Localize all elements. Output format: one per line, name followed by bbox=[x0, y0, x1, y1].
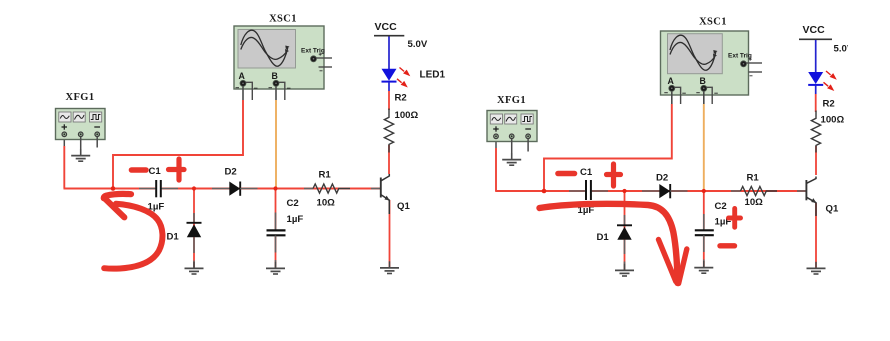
wire R2 to collector (right) bbox=[815, 146, 817, 175]
node C2 junction dot (right) bbox=[702, 189, 706, 193]
function generator XFG1 (right) bbox=[487, 111, 537, 142]
resistor R1 (right) bbox=[731, 173, 806, 209]
wire Q1 emitter to ground (right) bbox=[815, 203, 817, 268]
svg-text:D1: D1 bbox=[167, 232, 180, 243]
node A junction dot (right) bbox=[542, 189, 547, 194]
wire R2 to Q1 collector bbox=[388, 145, 390, 174]
svg-text:D2: D2 bbox=[656, 173, 668, 184]
svg-text:10Ω: 10Ω bbox=[745, 197, 764, 208]
XSC1 label bbox=[269, 14, 297, 25]
main horizontal wire (right) bbox=[495, 190, 806, 192]
ground XFG1 (right) bbox=[502, 153, 521, 165]
annotation red minus (C1 right) bbox=[558, 171, 575, 177]
svg-text:B: B bbox=[700, 76, 706, 86]
annotation red minus (C1 left) bbox=[132, 167, 147, 173]
annotation red curved arrow (left) bbox=[104, 194, 163, 269]
LED LED1 (right) bbox=[808, 40, 837, 112]
node D1 junction dot (right) bbox=[622, 189, 626, 193]
ground Q1 bbox=[380, 261, 399, 273]
ground D1 bbox=[185, 262, 204, 274]
diode D2 (right) bbox=[642, 173, 688, 199]
XFG1 common wire bbox=[80, 137, 82, 155]
svg-text:Ext Trig: Ext Trig bbox=[728, 53, 752, 60]
svg-text:R2: R2 bbox=[395, 93, 407, 104]
XSC1 label (right) bbox=[699, 17, 727, 28]
svg-text:R1: R1 bbox=[747, 173, 760, 184]
XFG1 minus stub (right) bbox=[527, 139, 529, 152]
ground Q1 (right) bbox=[807, 262, 826, 274]
resistor R2 (right) bbox=[811, 99, 844, 153]
ground C2 bbox=[266, 262, 285, 274]
svg-text:10Ω: 10Ω bbox=[317, 198, 336, 209]
wire XFG1 plus terminal to main wire (right) bbox=[495, 139, 497, 191]
svg-text:XSC1: XSC1 bbox=[269, 14, 297, 25]
svg-text:VCC: VCC bbox=[803, 24, 826, 36]
capacitor C2 bbox=[267, 198, 304, 268]
svg-text:C2: C2 bbox=[715, 201, 727, 212]
capacitor C1 bbox=[139, 166, 178, 213]
svg-text:XSC1: XSC1 bbox=[699, 17, 727, 28]
svg-text:C1: C1 bbox=[580, 167, 593, 178]
wire scope channel B down to node bbox=[275, 100, 277, 189]
svg-text:XFG1: XFG1 bbox=[497, 95, 526, 106]
svg-text:C1: C1 bbox=[149, 166, 162, 177]
svg-text:C2: C2 bbox=[287, 198, 299, 209]
ground C2 (right) bbox=[694, 261, 713, 273]
node A junction dot bbox=[111, 186, 116, 191]
annotation red plus (C1 left) bbox=[169, 159, 185, 180]
diode D2 bbox=[212, 167, 258, 196]
svg-text:100Ω: 100Ω bbox=[821, 115, 845, 126]
annotation red plus (C2 right) bbox=[729, 209, 741, 228]
wire Q1 emitter to ground bbox=[389, 200, 391, 267]
svg-text:R2: R2 bbox=[823, 99, 835, 110]
wire scope A down-left to node (right) bbox=[544, 104, 672, 191]
wire D1 column bbox=[193, 189, 195, 268]
VCC power (right) bbox=[799, 24, 863, 55]
svg-text:B: B bbox=[272, 71, 278, 81]
transistor Q1 (right) bbox=[806, 177, 839, 217]
oscilloscope XSC1 bbox=[234, 26, 332, 100]
resistor R2 bbox=[384, 93, 418, 153]
svg-text:5.0V: 5.0V bbox=[408, 39, 428, 50]
capacitor C2 (right) bbox=[695, 201, 732, 267]
svg-text:VCC: VCC bbox=[375, 21, 398, 33]
oscilloscope XSC1 (right) bbox=[661, 31, 763, 104]
ground XFG1 bbox=[71, 149, 90, 161]
svg-text:A: A bbox=[668, 76, 675, 86]
capacitor C1 (right) bbox=[569, 167, 608, 216]
annotation red swoosh arrow (right) bbox=[540, 204, 687, 284]
svg-text:100Ω: 100Ω bbox=[395, 110, 419, 121]
XFG1 minus stub bbox=[96, 137, 98, 148]
svg-text:Q1: Q1 bbox=[397, 201, 410, 212]
svg-text:R1: R1 bbox=[319, 170, 332, 181]
wire C2 column (right) bbox=[703, 191, 705, 267]
XFG1 label bbox=[65, 92, 94, 103]
wire scope channel A down-left to node bbox=[113, 100, 243, 189]
wire D1 column (right) bbox=[624, 191, 626, 270]
VCC power bbox=[374, 21, 428, 50]
diode D1 bbox=[167, 213, 202, 268]
svg-text:1µF: 1µF bbox=[287, 214, 304, 225]
node D1 junction dot bbox=[192, 186, 196, 190]
XFG1 common wire (right) bbox=[511, 139, 513, 159]
wire C2 column bbox=[275, 189, 277, 268]
annotation red plus (C1 right) bbox=[607, 164, 621, 186]
main horizontal wire bbox=[64, 188, 381, 190]
function generator XFG1 bbox=[56, 109, 106, 140]
svg-text:LED1: LED1 bbox=[420, 70, 446, 81]
svg-text:XFG1: XFG1 bbox=[65, 92, 94, 103]
diode D1 (right) bbox=[597, 215, 633, 270]
svg-text:D2: D2 bbox=[225, 167, 237, 178]
ground D1 (right) bbox=[615, 264, 634, 276]
resistor R1 bbox=[304, 170, 381, 209]
node C2 junction dot bbox=[273, 186, 277, 190]
transistor Q1 bbox=[381, 174, 411, 214]
svg-text:Ext Trig: Ext Trig bbox=[301, 48, 325, 55]
annotation red minus (C2 right) bbox=[720, 243, 735, 248]
LED LED1 bbox=[382, 37, 446, 111]
wire XFG1 plus terminal to main wire bbox=[63, 137, 65, 189]
svg-text:D1: D1 bbox=[597, 232, 610, 243]
wire scope B down to node (right) bbox=[703, 104, 705, 191]
XFG1 label (right) bbox=[497, 95, 526, 106]
svg-text:Q1: Q1 bbox=[826, 204, 839, 215]
svg-text:A: A bbox=[239, 71, 246, 81]
